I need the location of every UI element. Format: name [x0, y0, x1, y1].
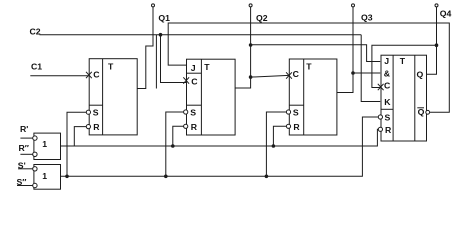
gate G2 "1" (S9 set gate): [34, 165, 61, 190]
wire R reset rail from G1: [61, 129, 379, 146]
label R': [20, 124, 28, 134]
pin R of U1 (bubble): [86, 122, 100, 132]
node S rail junction at U1: [65, 175, 69, 179]
pin R of U2 (bubble): [184, 122, 198, 132]
svg-text:R': R': [20, 124, 28, 134]
svg-text:Q3: Q3: [361, 13, 373, 23]
wire S rail to U2.S: [166, 112, 184, 176]
wire U4.Qbar to U2.J feedback: [168, 23, 449, 112]
svg-text:Q1: Q1: [158, 13, 170, 23]
JK flip-flop U4 (Q4 stage): [381, 55, 427, 141]
label Q4: [440, 9, 452, 19]
pin S of U3 (bubble): [286, 108, 299, 118]
pin R-prime bubble of G1: [33, 136, 37, 140]
wire U3.Q to Q3: [337, 7, 353, 93]
clock edge mark U1.C: [86, 72, 92, 78]
wire R rail to U3.R: [273, 126, 286, 146]
pin S of U4 (bubble): [378, 113, 390, 123]
svg-text:Q2: Q2: [256, 13, 268, 23]
svg-text:K: K: [384, 97, 391, 107]
svg-text:S: S: [385, 113, 391, 123]
wire S' input: [18, 168, 33, 170]
node Q3 tap junction: [351, 71, 355, 75]
label S': [18, 160, 26, 170]
pin S-prime bubble of G2: [33, 167, 37, 171]
wire C1 to U1.C: [30, 75, 88, 77]
svg-text:C1: C1: [31, 61, 42, 71]
svg-text:Q: Q: [418, 107, 425, 117]
node Q1 terminal: [152, 4, 155, 7]
wire Q4 to U4.C feedback: [372, 45, 437, 87]
label Q2: [256, 13, 268, 23]
wire S rail to U3.S: [266, 112, 286, 176]
svg-text:R: R: [385, 125, 392, 135]
svg-text:J: J: [384, 56, 389, 66]
wire Q3 to U4.amp: [353, 72, 380, 74]
svg-text:R: R: [93, 122, 100, 132]
pin R of U3 (bubble): [286, 122, 300, 132]
svg-text:S: S: [93, 108, 99, 118]
node Q4 tap junction: [435, 43, 439, 47]
wire R" input: [20, 153, 32, 155]
wire C2 bus: [40, 34, 362, 36]
T flip-flop U1 (Q1 stage): [89, 59, 137, 135]
pin S of U1 (bubble): [86, 108, 99, 118]
svg-text:S: S: [293, 108, 299, 118]
node R rail junction at U3: [272, 144, 276, 148]
label S": [17, 177, 27, 187]
svg-text:R: R: [191, 122, 198, 132]
pin S-doubleprime bubble of G2: [33, 183, 37, 187]
wire C2 to U4.K: [361, 35, 380, 102]
pin Qbar bubble of U4: [426, 110, 430, 114]
svg-text:C: C: [93, 70, 100, 80]
svg-text:R″: R″: [19, 143, 29, 153]
wire S rail to U1.S: [67, 112, 86, 176]
svg-text:C: C: [293, 69, 300, 79]
pin S of U2 (bubble): [184, 108, 197, 118]
node S rail junction at U2: [164, 175, 168, 179]
label Q3: [361, 13, 373, 23]
pin R-doubleprime bubble of G1: [33, 152, 37, 156]
node C2 tap junction: [159, 33, 163, 37]
wire Q2 to U3.C: [251, 75, 289, 77]
label R": [19, 143, 29, 153]
label C2: [30, 27, 41, 37]
node Q2 tap junction upper: [249, 43, 253, 47]
svg-text:Q: Q: [417, 69, 424, 79]
svg-text:C: C: [191, 77, 198, 87]
node Q4 terminal: [435, 4, 438, 7]
svg-text:C: C: [384, 81, 391, 91]
clock edge mark U3.C: [286, 72, 292, 78]
wire S set rail from G2: [61, 117, 379, 176]
label C1 input: [31, 61, 42, 71]
wire Q2 to U4.J: [251, 45, 381, 62]
node Q2 tap junction lower: [249, 75, 253, 79]
svg-text:T: T: [400, 56, 406, 66]
svg-text:T: T: [204, 62, 210, 72]
wire C2 to U2.C: [161, 35, 187, 83]
wire U4.Q to Q4: [427, 7, 437, 74]
clock edge mark U2.C: [183, 77, 189, 83]
wire U2.Q to Q2: [235, 7, 251, 88]
svg-text:T: T: [306, 62, 312, 72]
svg-text:1: 1: [42, 139, 47, 149]
node R rail junction at U2: [171, 144, 175, 148]
svg-text:Q4: Q4: [440, 9, 452, 19]
wire stub near Q1 riser: [155, 35, 157, 89]
wire R rail to U2.R: [173, 126, 184, 146]
wire U1.Q to Q1: [137, 7, 153, 89]
clock edge mark U4.C: [378, 84, 384, 90]
node Q2 terminal: [249, 4, 252, 7]
label Q1: [158, 13, 170, 23]
node S rail junction at U3: [265, 175, 269, 179]
svg-text:T: T: [108, 61, 114, 71]
T flip-flop U3 (Q3 stage): [289, 59, 337, 135]
pin R of U4 (bubble): [378, 125, 392, 135]
svg-text:C2: C2: [30, 27, 41, 37]
wire S" input: [17, 185, 33, 187]
svg-text:R: R: [293, 122, 300, 132]
node Q3 terminal: [352, 4, 355, 7]
svg-text:1: 1: [42, 171, 47, 181]
wire R rail to U1.R: [74, 127, 86, 146]
wire R' input: [20, 137, 32, 139]
label Qbar of U4: [417, 107, 424, 117]
gate G1 "1" (R0 reset gate): [34, 133, 61, 159]
JK flip-flop U2 (Q2 stage): [187, 59, 236, 135]
svg-text:J: J: [191, 63, 196, 73]
svg-text:S: S: [190, 108, 196, 118]
svg-text:&: &: [384, 68, 390, 78]
